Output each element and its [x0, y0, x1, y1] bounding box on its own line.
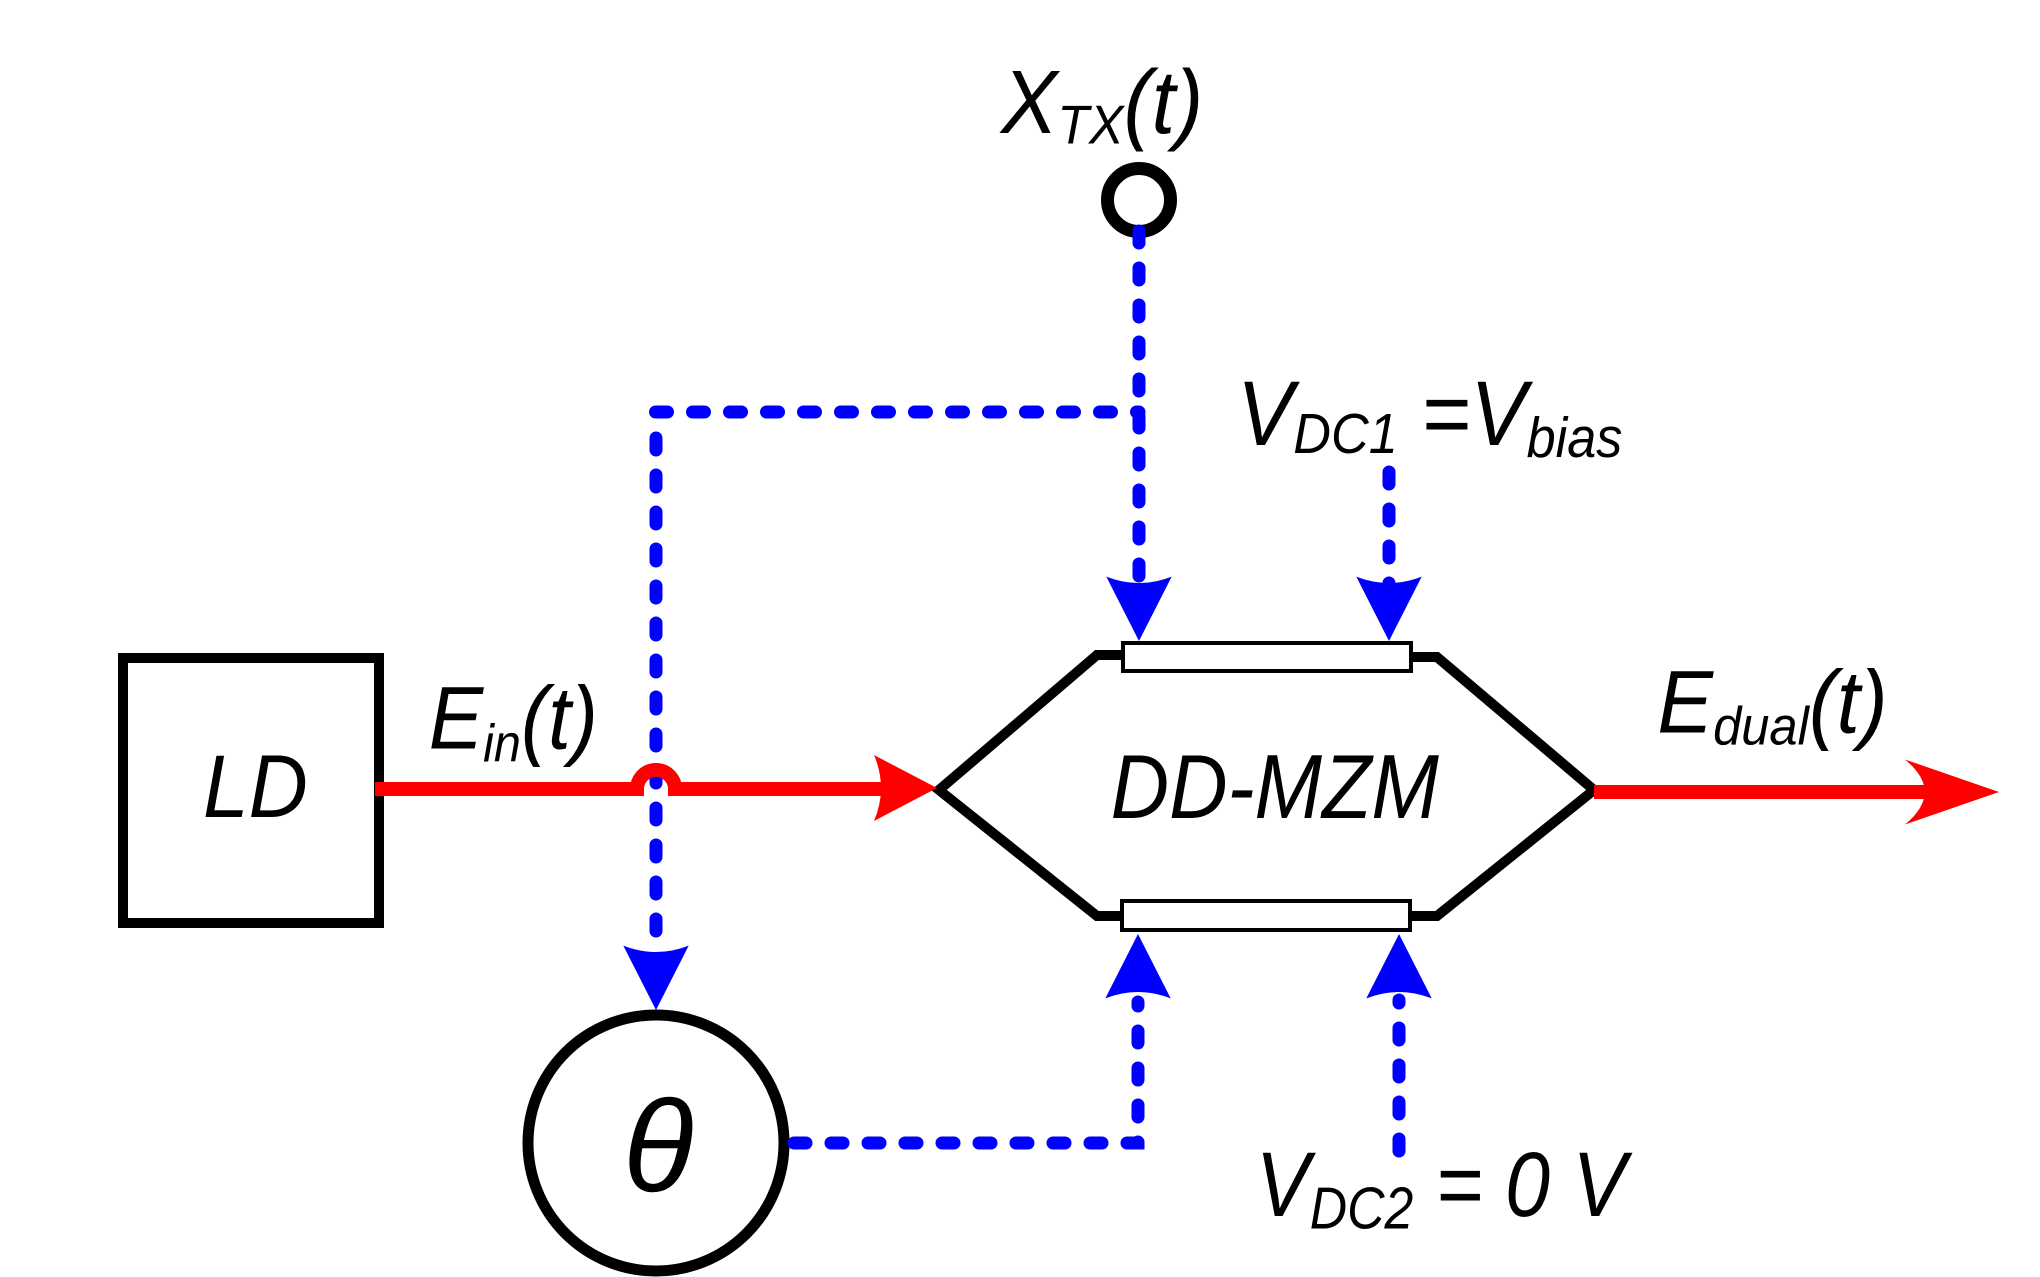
red arrowhead into DD-MZM input: [874, 755, 937, 821]
svg-text:VDC2 = 0 V: VDC2 = 0 V: [1256, 1134, 1633, 1241]
blue arrowhead into bottom electrode (left): [1105, 934, 1170, 998]
label DD-MZM: [1111, 737, 1440, 838]
blue arrowhead into bottom electrode (right): [1366, 934, 1431, 998]
svg-text:DD-MZM: DD-MZM: [1111, 737, 1440, 838]
blue arrowhead into top electrode (right): [1356, 577, 1421, 641]
svg-text:XTX(t): XTX(t): [999, 52, 1203, 156]
LD box (laser diode): [123, 658, 379, 923]
red output arrowhead: [1905, 760, 1999, 825]
svg-text:θ: θ: [623, 1073, 694, 1219]
blue arrowhead into theta circle: [623, 946, 688, 1010]
wire: blue dashed line from theta circle to bottom electrode: [794, 1002, 1138, 1143]
svg-text:Ein(t): Ein(t): [429, 669, 598, 773]
top electrode bar of DD-MZM: [1123, 643, 1411, 671]
wire: blue dashed line from V_DC1 label to top electrode: [1383, 472, 1396, 585]
blue arrowhead into top electrode (left): [1106, 577, 1171, 641]
DD-MZM hexagon left half: [939, 655, 1123, 916]
label theta: [623, 1073, 694, 1219]
DD-MZM hexagon right half: [1411, 657, 1594, 916]
label V_DC2 = 0 V: [1256, 1134, 1633, 1241]
label V_DC1 = V_bias: [1237, 361, 1622, 469]
label E_in(t): [429, 669, 598, 773]
input port circle for X_TX(t): [1108, 169, 1171, 232]
svg-text:LD: LD: [203, 738, 308, 837]
wire: red optical output path from DD-MZM: [1594, 785, 1930, 799]
label X_TX(t): [999, 52, 1203, 156]
wire: blue dashed drive line from X_TX circle to top electrode: [1133, 231, 1146, 585]
wire: blue dashed vertical from branch corner down to theta circle: [650, 438, 663, 948]
svg-text:VDC1 =Vbias: VDC1 =Vbias: [1237, 361, 1622, 469]
wire: red optical path from LD to DD-MZM with hop over blue line: [375, 770, 890, 789]
svg-text:Edual(t): Edual(t): [1657, 653, 1887, 757]
phase shifter circle theta: [528, 1015, 784, 1271]
wire: blue dashed line from V_DC2 label to bottom electrode: [1393, 1000, 1406, 1151]
label LD: [203, 738, 308, 837]
label E_dual(t): [1657, 653, 1887, 757]
wire: blue dashed branch from X_TX line to theta circle: [656, 406, 1140, 419]
bottom electrode bar of DD-MZM: [1122, 901, 1410, 930]
